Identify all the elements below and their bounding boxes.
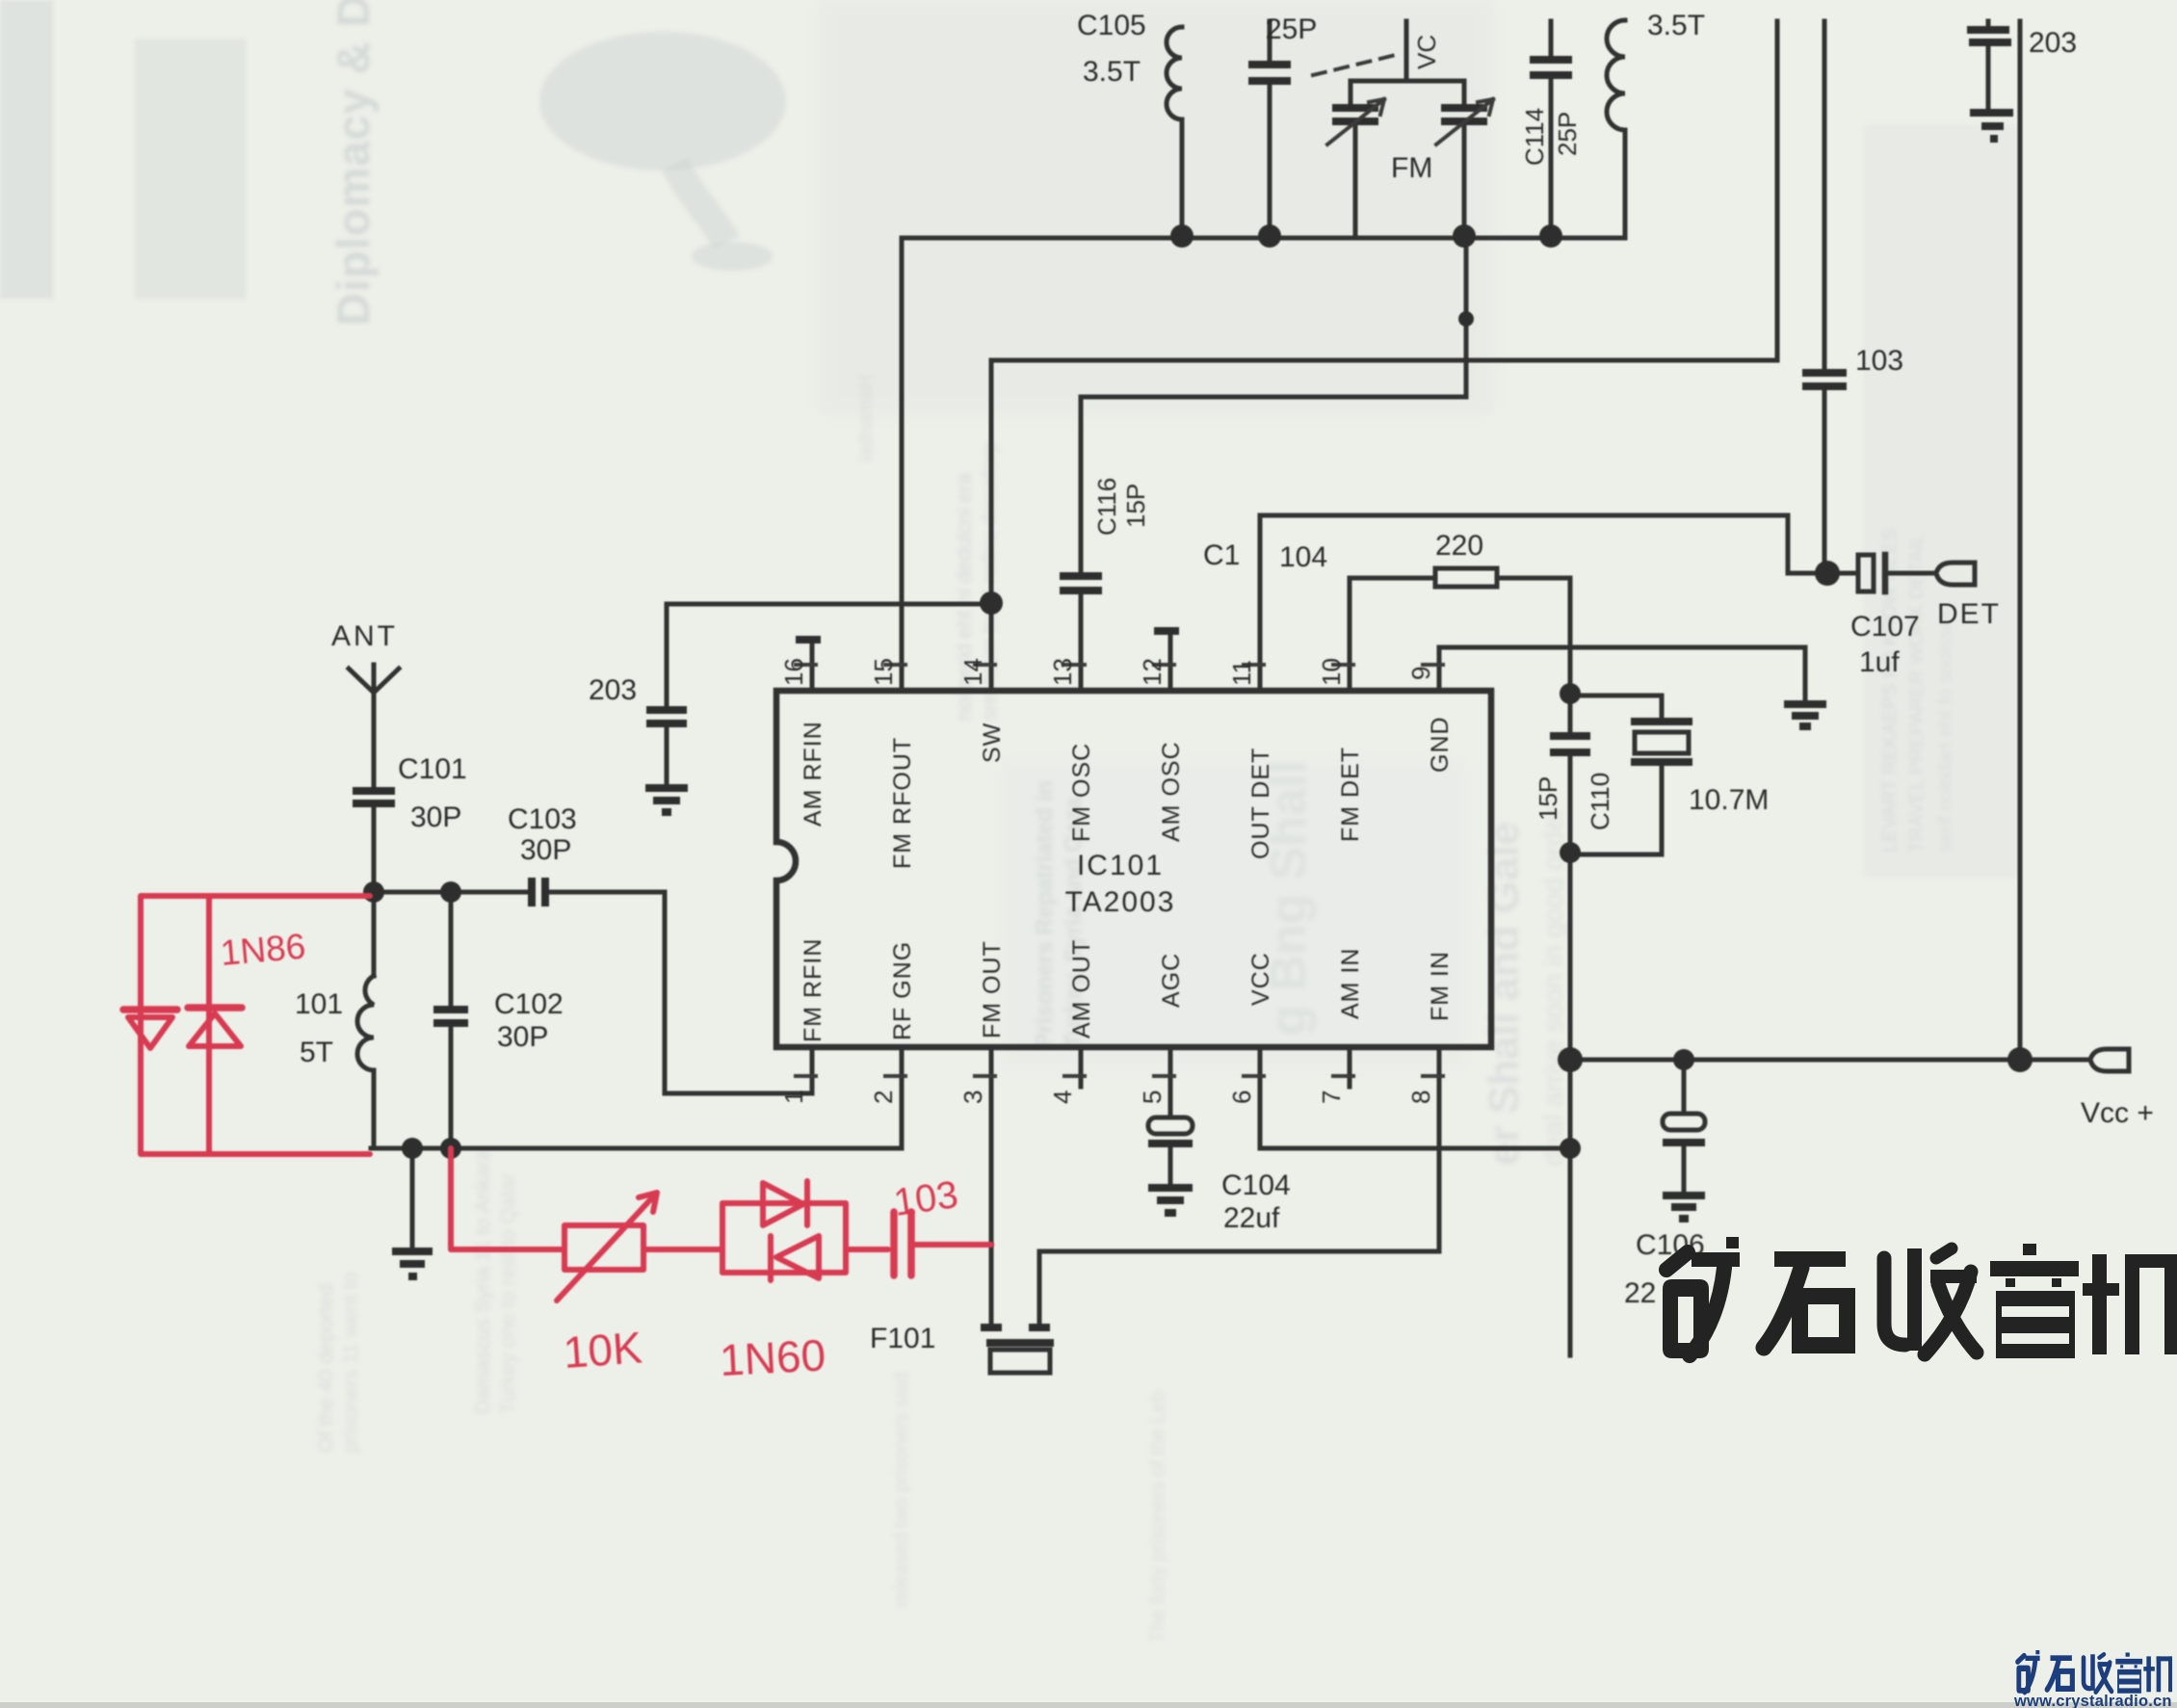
svg-text:12: 12 <box>1138 658 1167 686</box>
svg-text:14: 14 <box>958 658 987 686</box>
svg-text:DET: DET <box>1937 598 2001 630</box>
svg-text:AM IN: AM IN <box>1337 948 1364 1019</box>
svg-text:103: 103 <box>891 1173 960 1224</box>
svg-text:Of the 40 deported: Of the 40 deported <box>315 1284 337 1453</box>
svg-text:25P: 25P <box>1553 112 1582 156</box>
svg-text:4: 4 <box>1048 1090 1077 1104</box>
svg-text:iadnamaH: iadnamaH <box>855 375 877 462</box>
svg-text:25P: 25P <box>1266 13 1317 45</box>
svg-text:Turkey one to rest to Qatar: Turkey one to rest to Qatar <box>497 1173 519 1414</box>
svg-text:Prisoners Repatriated in: Prisoners Repatriated in <box>1032 781 1058 1048</box>
svg-text:7: 7 <box>1317 1090 1346 1104</box>
svg-text:prisoners 11 went to: prisoners 11 went to <box>340 1272 362 1453</box>
svg-text:8: 8 <box>1406 1090 1435 1104</box>
svg-text:OUT DET: OUT DET <box>1247 748 1274 859</box>
svg-text:C102: C102 <box>494 988 564 1020</box>
svg-text:11: 11 <box>1227 660 1256 686</box>
svg-text:1N86: 1N86 <box>219 926 307 973</box>
svg-text:5: 5 <box>1138 1090 1167 1104</box>
svg-text:C105: C105 <box>1077 10 1146 41</box>
svg-text:16: 16 <box>779 658 808 686</box>
svg-text:203: 203 <box>2029 27 2077 59</box>
svg-text:FM OSC: FM OSC <box>1068 743 1095 842</box>
svg-text:FM: FM <box>1391 152 1432 184</box>
svg-text:Diplomacy & Dett: Diplomacy & Dett <box>328 0 379 326</box>
svg-text:SW: SW <box>979 723 1006 763</box>
svg-text:5T: 5T <box>300 1037 333 1068</box>
svg-text:30P: 30P <box>520 834 571 866</box>
svg-text:103: 103 <box>1855 345 1903 377</box>
svg-text:Damascus Syria 11 to Ankara: Damascus Syria 11 to Ankara <box>472 1149 494 1414</box>
svg-text:C1: C1 <box>1203 539 1240 571</box>
svg-text:FM OUT: FM OUT <box>979 940 1006 1038</box>
svg-text:www.crystalradio.cn: www.crystalradio.cn <box>2013 1693 2172 1708</box>
svg-text:C103: C103 <box>508 803 577 835</box>
svg-text:220: 220 <box>1435 530 1483 562</box>
svg-text:C104: C104 <box>1221 1169 1291 1201</box>
svg-text:10.7M: 10.7M <box>1689 784 1769 816</box>
svg-text:VCC: VCC <box>1247 952 1274 1006</box>
svg-text:2: 2 <box>869 1090 898 1104</box>
svg-text:3.5T: 3.5T <box>1083 56 1141 88</box>
svg-text:10K: 10K <box>562 1322 644 1378</box>
svg-text:1: 1 <box>779 1090 808 1104</box>
svg-text:10: 10 <box>1317 658 1346 686</box>
svg-text:C116: C116 <box>1092 478 1121 536</box>
svg-text:15P: 15P <box>1534 776 1562 821</box>
svg-text:101: 101 <box>295 988 343 1020</box>
svg-text:VC: VC <box>1412 35 1441 69</box>
svg-text:RF GNG: RF GNG <box>889 941 916 1040</box>
svg-text:C107: C107 <box>1850 611 1920 643</box>
svg-text:TA2003: TA2003 <box>1065 886 1176 918</box>
svg-text:15P: 15P <box>1121 484 1150 528</box>
svg-text:203: 203 <box>589 674 637 706</box>
svg-text:GND: GND <box>1427 716 1454 773</box>
svg-text:AM OSC: AM OSC <box>1158 741 1185 842</box>
svg-text:Vcc +: Vcc + <box>2081 1097 2154 1129</box>
svg-text:FM RFOUT: FM RFOUT <box>889 737 916 869</box>
svg-text:IC101: IC101 <box>1077 850 1164 881</box>
svg-text:1N60: 1N60 <box>719 1329 827 1385</box>
svg-text:FM DET: FM DET <box>1337 747 1364 842</box>
svg-text:104: 104 <box>1279 541 1327 573</box>
svg-text:3.5T: 3.5T <box>1647 10 1705 41</box>
svg-text:deal arrive soon in good order: deal arrive soon in good order <box>1538 807 1568 1166</box>
svg-text:ANT: ANT <box>331 620 398 652</box>
svg-text:FM IN: FM IN <box>1427 951 1454 1021</box>
svg-text:C110: C110 <box>1586 773 1614 830</box>
svg-text:er Shali and Gale: er Shali and Gale <box>1481 822 1528 1166</box>
svg-text:3: 3 <box>958 1090 987 1104</box>
svg-text:released two prisoners said: released two prisoners said <box>891 1373 912 1607</box>
svg-text:AGC: AGC <box>1158 953 1185 1008</box>
svg-text:TRAVEL PREPARER WORK DETAIL: TRAVEL PREPARER WORK DETAIL <box>1906 533 1928 853</box>
svg-text:30P: 30P <box>497 1021 548 1053</box>
svg-text:AM RFIN: AM RFIN <box>800 721 826 827</box>
svg-text:22uf: 22uf <box>1223 1202 1280 1234</box>
svg-text:The forty prisoners of the Leb: The forty prisoners of the Leb <box>1147 1391 1168 1642</box>
svg-text:1uf: 1uf <box>1859 646 1900 678</box>
svg-text:22: 22 <box>1624 1277 1656 1309</box>
svg-text:serif noitidart eht fo snoisse: serif noitidart eht fo snoisses <box>1935 609 1956 853</box>
svg-text:C101: C101 <box>398 753 467 785</box>
svg-text:F101: F101 <box>870 1323 935 1354</box>
svg-text:AM OUT: AM OUT <box>1068 939 1095 1038</box>
svg-text:FM RFIN: FM RFIN <box>800 938 826 1042</box>
svg-text:30P: 30P <box>410 801 461 833</box>
svg-text:C114: C114 <box>1520 108 1549 166</box>
svg-text:13: 13 <box>1048 658 1077 686</box>
svg-text:6: 6 <box>1227 1090 1256 1104</box>
svg-text:9: 9 <box>1406 667 1435 680</box>
svg-text:15: 15 <box>869 658 898 686</box>
